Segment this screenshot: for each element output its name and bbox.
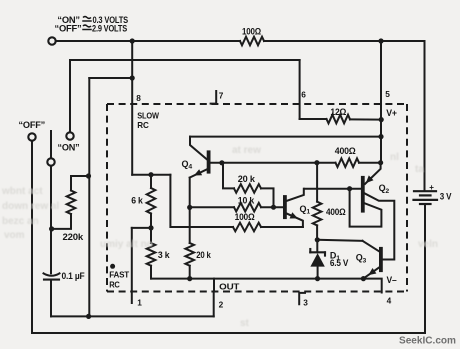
capacitor C1 0.1uF (44, 273, 60, 279)
transistor Q4 base bar (207, 152, 211, 171)
svg-text:vom: vom (4, 230, 25, 241)
label 20 k horizontal (238, 174, 256, 184)
terminal ON (open circle) (66, 132, 73, 139)
pin 5 wire into box (V+) (380, 41, 382, 120)
label pin 8 (136, 93, 141, 103)
svg-text:“OFF”: “OFF” (19, 120, 46, 130)
svg-text:FAST: FAST (109, 270, 129, 280)
wire RC line to capacitor (50, 229, 52, 273)
svg-text:400Ω: 400Ω (326, 207, 346, 217)
junction 6k top (148, 172, 153, 177)
transistor Q3 base bar (379, 249, 383, 270)
svg-text:st: st (240, 318, 250, 329)
label 12 ohm (330, 107, 346, 117)
svg-text:2.9 VOLTS: 2.9 VOLTS (92, 24, 127, 34)
wire top rail y=41 left of 100-ohm resistor (56, 40, 241, 42)
wire V+ line pin5 down (380, 120, 382, 163)
wire fast RC node to pin1 (132, 227, 151, 229)
svg-text:“OFF”: “OFF” (55, 24, 82, 34)
label SLOW RC (137, 111, 159, 130)
resistor 220k (67, 191, 76, 215)
label V- (387, 275, 397, 285)
svg-text:100Ω: 100Ω (242, 26, 261, 36)
junction Q3 emitter at rail (361, 276, 366, 281)
wire 220k top lead (71, 176, 89, 191)
wire right edge down to battery + (424, 41, 426, 190)
annotation "ON" = 0.3 VOLTS (57, 15, 128, 25)
svg-text:4: 4 (387, 296, 392, 306)
transistor Q4 collector (190, 137, 207, 160)
svg-text:3 V: 3 V (440, 192, 452, 202)
junction Q4 emitter at 10k row (187, 205, 192, 210)
svg-text:7: 7 (219, 91, 224, 101)
label 10 k (238, 196, 255, 206)
wire 12-ohm row left (300, 118, 327, 120)
label 6 k (131, 196, 144, 206)
label pin 6 (301, 90, 306, 100)
label pin 3 (303, 298, 308, 308)
label 100 ohm middle (235, 212, 255, 222)
svg-text:3 k: 3 k (158, 250, 171, 260)
wire 10k row left lead (190, 206, 234, 208)
svg-text:veln: veln (418, 239, 438, 250)
transistor Q1 collector (287, 189, 304, 201)
svg-text:6: 6 (301, 90, 306, 100)
pin 2 wire (OUT) (213, 279, 215, 292)
wire 12-ohm row right (350, 118, 381, 120)
svg-text:20 k: 20 k (196, 250, 212, 260)
resistor 3k (147, 228, 156, 279)
resistor 20k vertical (185, 243, 194, 279)
junction y78 on pin8 line (130, 75, 135, 80)
transistor Q2 collector A to Q3 base (365, 193, 395, 259)
pin 7 tick (211, 91, 217, 104)
wire Q3 collector row y=240.6 (317, 240, 362, 241)
junction 400h at V+ line (378, 160, 383, 165)
junction base row at 400-ohm-vertical (314, 160, 319, 165)
wire top rail y=41 right segment (264, 40, 425, 42)
svg-text:down rew al: down rew al (2, 201, 59, 212)
junction fast RC node (6k bottom) (148, 225, 153, 230)
wire capacitor down to bottom node (50, 280, 52, 317)
label 3 k (158, 250, 171, 260)
svg-text:nl: nl (390, 152, 399, 163)
pin 1 wire (fast RC) (131, 228, 133, 303)
junction 220k top on x=89 line (86, 173, 91, 178)
svg-text:bezc an: bezc an (2, 216, 39, 227)
wire RC line down to 220k junction (50, 166, 52, 229)
junction bottom node with x=89 line (86, 314, 91, 319)
pin 8 wire (slow RC) into box (131, 41, 133, 175)
svg-text:5: 5 (385, 89, 390, 99)
junction 20k-v at bottom rail (187, 276, 192, 281)
svg-text:6 k: 6 k (131, 196, 144, 206)
label "ON" (58, 142, 80, 152)
label pin 7 (219, 91, 224, 101)
transistor Q4 emitter with arrow (190, 169, 207, 177)
label pin 4 (387, 296, 392, 306)
resistor 12 ohm (327, 115, 351, 124)
label pin 5 (385, 89, 390, 99)
battery B1 3V (414, 191, 438, 204)
pin 3 tick (299, 293, 305, 304)
resistor 100 ohm middle (233, 223, 261, 232)
label "OFF" (19, 120, 46, 130)
label 400 ohm horizontal (335, 146, 356, 156)
wire OUT external drop (pin2 to bottom node) (213, 292, 215, 317)
wire pin8 row y=174.7 (132, 174, 170, 176)
svg-text:wbnt act: wbnt act (1, 186, 43, 197)
svg-text:RC: RC (137, 120, 148, 130)
label D1 (330, 250, 340, 262)
transistor Q1 base bar (283, 197, 287, 217)
label OUT (219, 282, 239, 292)
fast RC bullet dot (110, 264, 115, 269)
junction D1 top node (315, 237, 320, 242)
label 6.5 V (330, 258, 348, 268)
svg-text:220k: 220k (63, 232, 84, 242)
terminal inline (open circle) on RC line (47, 158, 54, 165)
wire 20k-h left drop from base row (223, 163, 234, 189)
svg-text:2: 2 (219, 300, 224, 310)
transistor Q2 emitter from V+ with arrow (PNP) (365, 163, 381, 184)
label pin 2 (219, 300, 224, 310)
wire stub above inline terminal (50, 131, 52, 158)
label Q4 (182, 159, 193, 171)
wire bottom outer rail (32, 332, 425, 334)
wire 20k-h right lead down to 10k row (261, 188, 274, 207)
transistor Q2 base bar (361, 178, 365, 211)
wire x=89 vertical (y78 wire down to bottom node) (88, 78, 90, 316)
watermark SeekIC.com (399, 335, 456, 347)
svg-text:at rew: at rew (232, 145, 261, 156)
label 20 k vertical (196, 250, 212, 260)
transistor Q3 collector (363, 241, 380, 252)
label 0.1 uF (62, 271, 86, 281)
label 400 ohm vertical (326, 207, 346, 217)
zener diode D1 6.5V (310, 240, 325, 279)
svg-text:0.1 µF: 0.1 µF (62, 271, 86, 281)
label Q1 (300, 204, 311, 216)
wire ON terminal up (69, 60, 71, 132)
svg-text:6.5 V: 6.5 V (330, 258, 348, 268)
label V+ (386, 108, 397, 118)
junction top rail to pin8 (130, 38, 135, 43)
label Q3 (356, 253, 367, 265)
wire internal bottom rail y=278.6 (151, 278, 363, 280)
label pin 1 (137, 298, 142, 308)
junction base row at 20k drop (219, 160, 224, 165)
resistor 400 ohm vertical (313, 163, 322, 240)
svg-text:OUT: OUT (219, 282, 239, 292)
svg-text:umiy alt no: umiy alt no (100, 239, 153, 250)
svg-text:8: 8 (136, 93, 141, 103)
terminal OFF (open circle) (28, 133, 35, 140)
svg-text:20 k: 20 k (238, 174, 256, 184)
svg-text:RC: RC (109, 280, 120, 290)
terminal input ON/OFF (open circle) (48, 37, 55, 44)
label 3 V (440, 192, 452, 202)
pin 6 wire into box (299, 60, 301, 119)
wire 10k row to Q1 base (261, 206, 283, 208)
svg-text:3: 3 (303, 298, 308, 308)
wire 220k bottom lead (52, 214, 71, 229)
svg-text:V+: V+ (386, 108, 397, 118)
transistor Q3 emitter with arrow (364, 268, 379, 278)
IC dashed box outline (107, 104, 407, 292)
wire left outer edge to OFF terminal (31, 141, 33, 333)
wire Q2 base row y=188.7 (from Q1 collector) (304, 188, 361, 190)
wire external bottom node rail (51, 315, 214, 317)
svg-text:“ON”: “ON” (58, 142, 80, 152)
wire rail to pin 4 (363, 279, 381, 293)
annotation "OFF" = 2.9 VOLTS (55, 24, 128, 34)
wire y=136.6 rail (Q4 collector to V+ line) (190, 136, 381, 138)
label Q2 (379, 183, 390, 195)
junction 220k bottom on RC line (49, 226, 54, 231)
wire 100-ohm row right to Q1 emitter (261, 226, 303, 228)
ghost show-through text (decorative) (1, 145, 438, 329)
label FAST RC (109, 270, 129, 290)
svg-text:100Ω: 100Ω (235, 212, 255, 222)
junction D1 bottom at rail (315, 276, 320, 281)
resistor 10k (234, 203, 261, 212)
svg-text:V–: V– (387, 275, 397, 285)
svg-text:12Ω: 12Ω (330, 107, 346, 117)
resistor 20k horizontal (234, 184, 261, 193)
svg-text:400Ω: 400Ω (335, 146, 356, 156)
junction V+ line y136 (378, 134, 383, 139)
junction top rail to pin5 (378, 38, 383, 43)
label battery plus (429, 183, 434, 192)
resistor 400 ohm horizontal (336, 158, 360, 167)
resistor 100 ohm (top) (240, 37, 264, 46)
svg-text:ta: ta (415, 164, 424, 175)
transistor Q2 collector B tied to base (350, 189, 382, 227)
transistor Q1 emitter with arrow (287, 212, 303, 227)
wire Q4 base row y=162.8 (211, 162, 336, 164)
wire y=78 to pin 8 line (89, 77, 132, 79)
svg-text:10 k: 10 k (238, 196, 255, 206)
resistor 6k (147, 175, 156, 228)
svg-text:SeekIC.com: SeekIC.com (399, 335, 456, 347)
wire 100-ohm row (slow node) left riser (170, 175, 233, 227)
svg-text:1: 1 (137, 298, 142, 308)
svg-text:+: + (429, 183, 434, 192)
junction 10k row at 20k drop (271, 205, 276, 210)
wire y=60 to pin 6 (70, 59, 300, 61)
wire battery - down right edge (424, 204, 426, 333)
label 220k (63, 232, 84, 242)
label 100 ohm top (242, 26, 261, 36)
junction 12-ohm at V+ line (379, 117, 384, 122)
wire Q4 emitter down (x=189.7) to 20k-v top (189, 178, 191, 243)
wire 400h right lead (359, 162, 381, 164)
junction Q2 base at collector-B loop (347, 186, 352, 191)
